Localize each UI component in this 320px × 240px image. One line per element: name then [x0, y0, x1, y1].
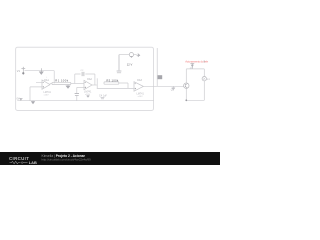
svg-text:±15V: ±15V — [44, 95, 50, 97]
svg-text:0V: 0V — [17, 98, 20, 100]
wire — [76, 87, 78, 93]
wire loop bottom — [186, 99, 204, 101]
wire feedback top — [75, 73, 95, 75]
wire — [119, 83, 128, 88]
voltage source V2 — [129, 53, 133, 57]
wire loop top — [186, 68, 204, 70]
wire — [134, 54, 137, 56]
V1 polarity dot — [22, 72, 24, 74]
U1 input pins — [30, 82, 42, 87]
svg-text:V1: V1 — [17, 69, 21, 73]
svg-text:LM741: LM741 — [44, 91, 52, 94]
svg-text:R1 100k: R1 100k — [55, 78, 68, 82]
svg-text:OA3: OA3 — [137, 79, 142, 82]
wire out U2 — [92, 84, 97, 86]
ground — [66, 85, 70, 89]
ground — [31, 101, 34, 104]
wire emitter — [185, 88, 187, 100]
capacitor C3 — [75, 94, 79, 96]
resistor R3 — [104, 82, 119, 84]
capacitor C2 — [82, 72, 84, 76]
svg-text:R3 100k: R3 100k — [106, 79, 119, 83]
wire — [77, 86, 84, 88]
logo node — [21, 162, 23, 164]
wire — [53, 71, 55, 84]
lamp L1 — [202, 77, 206, 81]
wire — [96, 78, 98, 88]
wire — [71, 83, 84, 85]
ground rail — [17, 100, 154, 102]
svg-text:OA2: OA2 — [87, 78, 92, 81]
svg-text:LM741: LM741 — [84, 91, 92, 94]
transistor Q1 — [184, 83, 189, 88]
junction dot — [185, 99, 187, 101]
wire — [25, 70, 55, 72]
svg-text:12 V: 12 V — [127, 62, 133, 66]
svg-text:L1: L1 — [207, 78, 210, 81]
logo zigzag — [10, 161, 21, 163]
svg-text:C2: C2 — [81, 70, 85, 72]
ground — [39, 68, 43, 74]
footer bar — [0, 152, 220, 165]
svg-text:OA1: OA1 — [44, 79, 49, 82]
svg-text:Acionamento do rele: Acionamento do rele — [185, 60, 208, 64]
op-amp U1 — [42, 80, 50, 89]
wire vertical node — [156, 48, 158, 86]
wire collector loop — [185, 69, 187, 83]
svg-text:±15V: ±15V — [138, 96, 144, 98]
ground flag left — [19, 98, 22, 101]
wire loop right upper — [203, 69, 205, 77]
supply D1 — [190, 63, 194, 69]
op-amp U3 — [134, 82, 143, 92]
wire — [119, 54, 129, 56]
wire — [94, 74, 96, 85]
wire — [29, 87, 31, 101]
wire — [76, 96, 78, 101]
wire plus rail — [97, 87, 134, 89]
voltage source V1 — [21, 67, 25, 75]
node flag out — [158, 75, 163, 79]
wire out U3 — [143, 85, 183, 87]
op-amp U2 — [84, 80, 92, 89]
net arrow — [137, 54, 140, 57]
resistor R1 — [52, 82, 71, 84]
capacitor C1 — [117, 55, 122, 73]
ground under U2 — [87, 95, 90, 98]
wire loop right lower — [203, 81, 205, 100]
sheet border — [16, 47, 154, 110]
wire — [74, 74, 76, 84]
